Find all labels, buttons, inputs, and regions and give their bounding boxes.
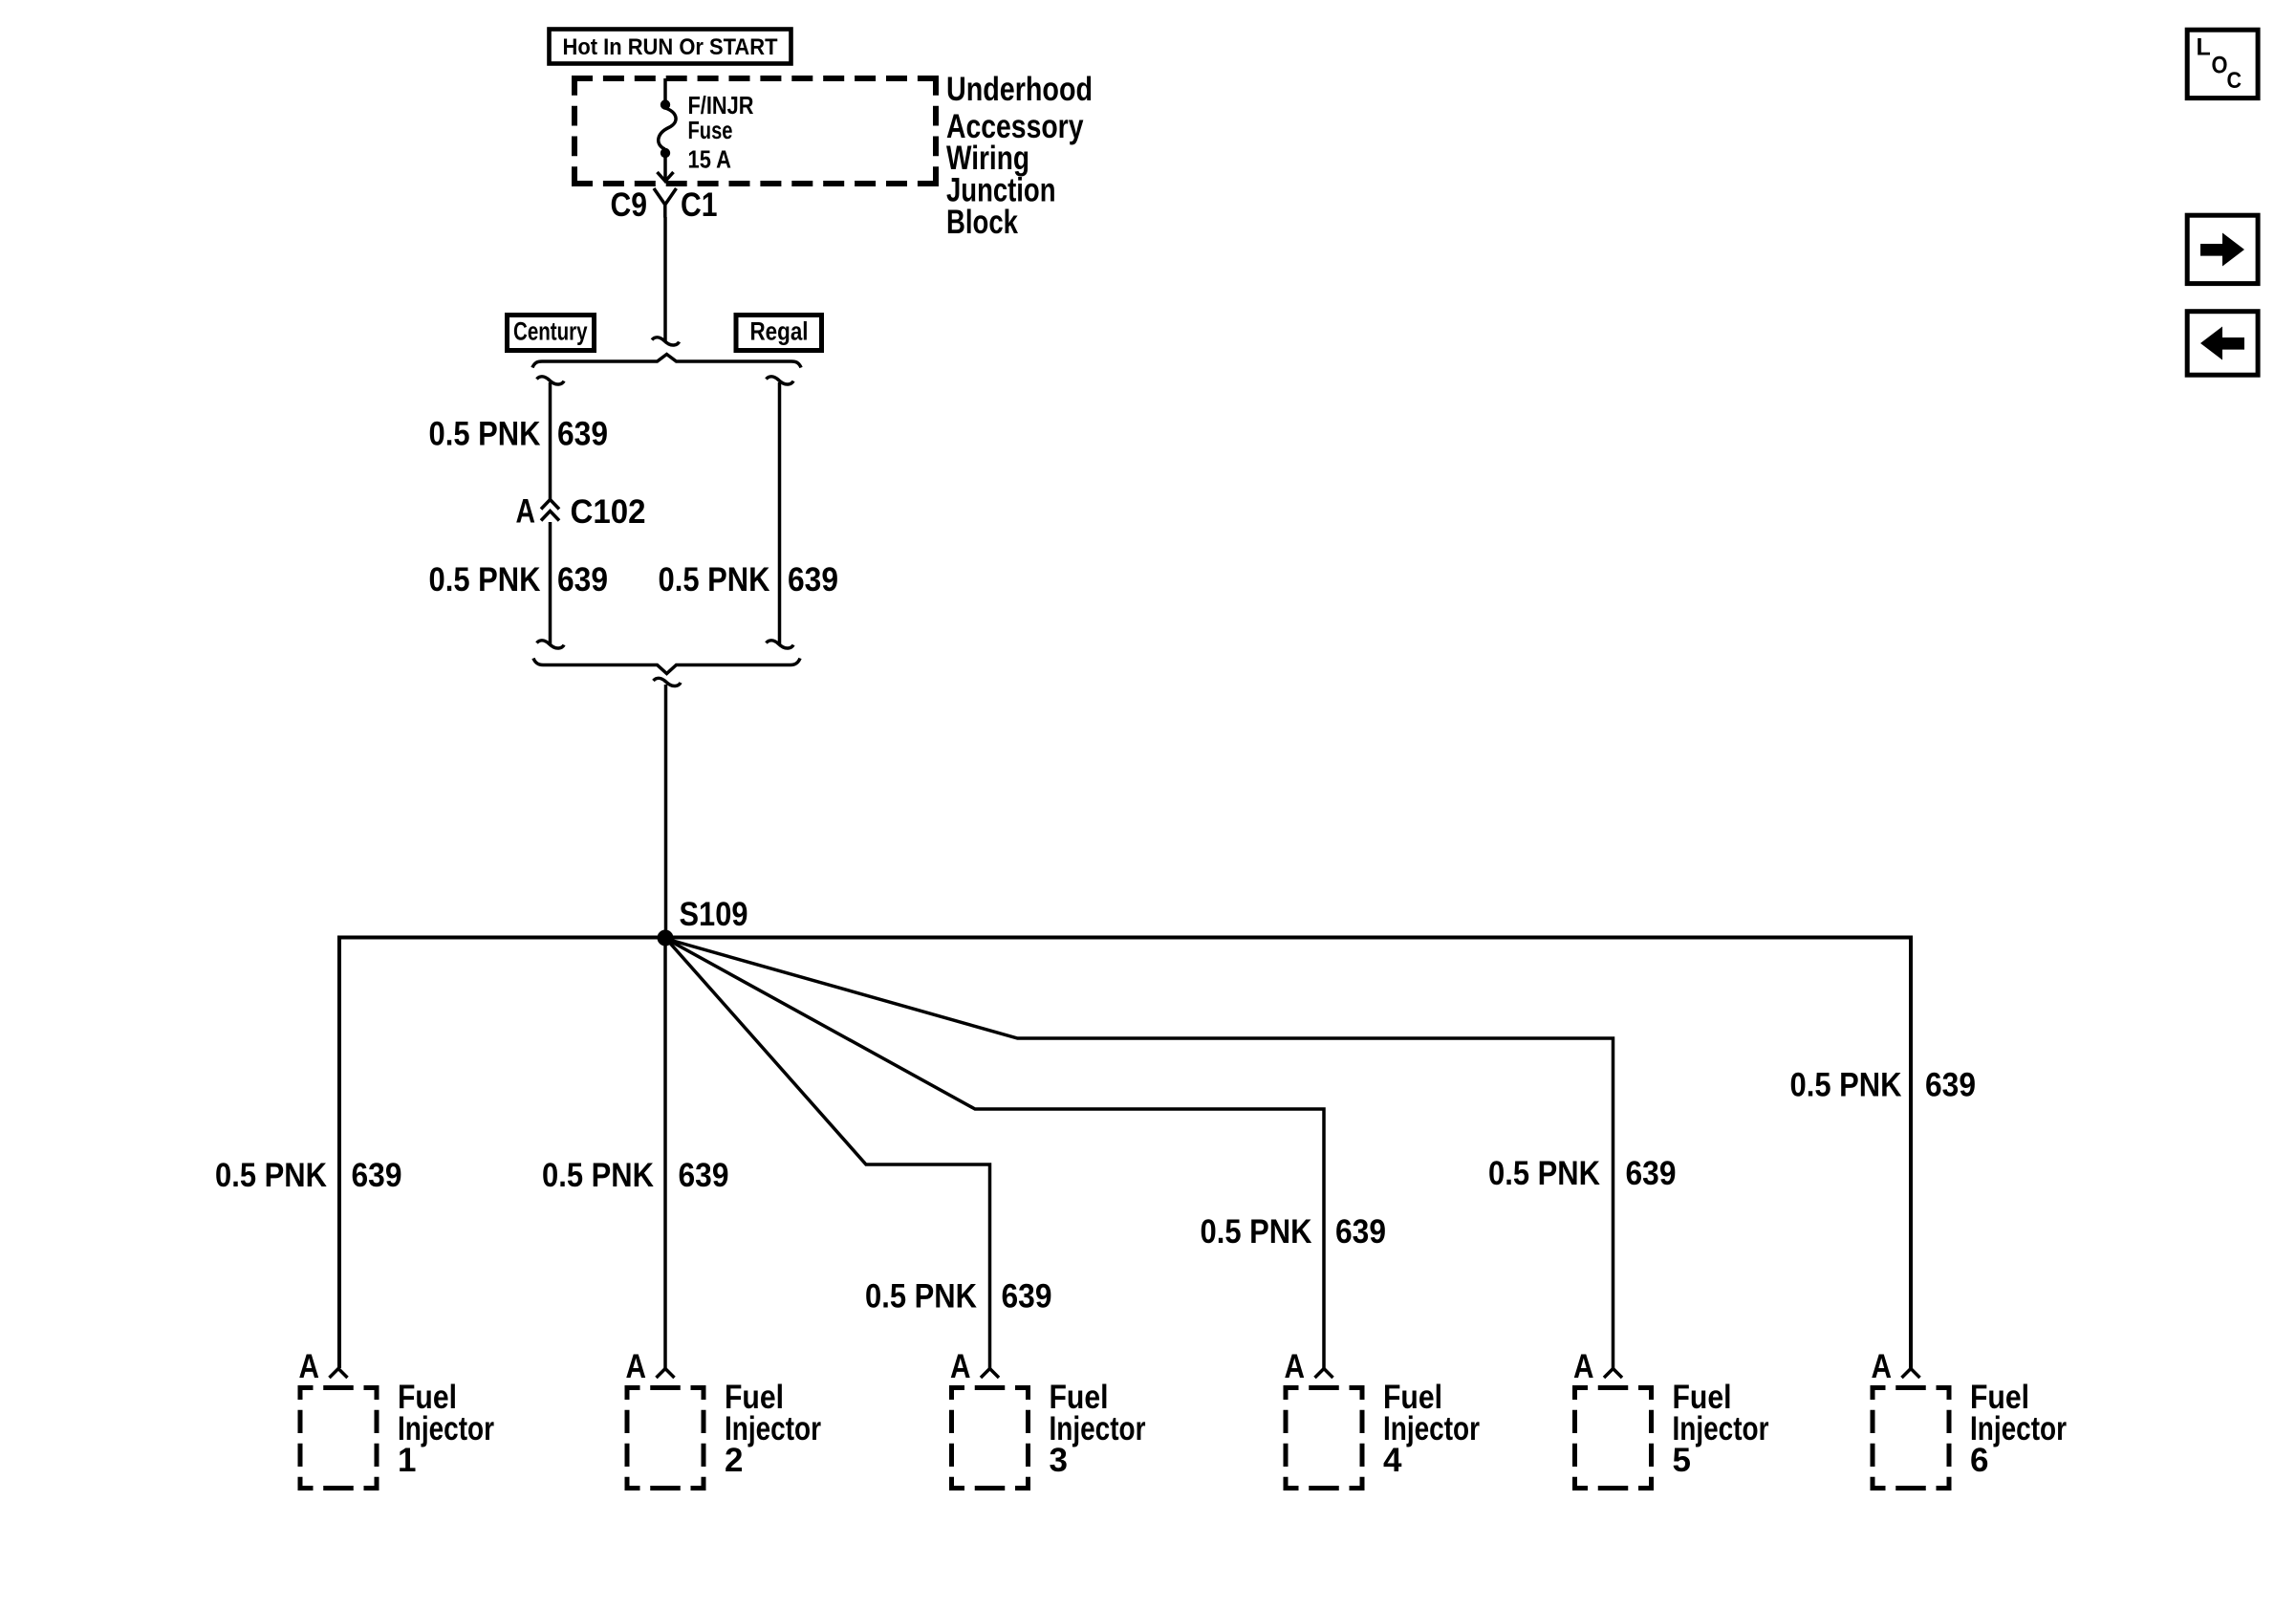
svg-text:0.5 PNK: 0.5 PNK [1790,1067,1902,1104]
svg-text:Regal: Regal [750,317,809,346]
svg-text:0.5 PNK: 0.5 PNK [429,561,541,598]
wire from fuse with arrowhead to block bottom edge [658,153,674,182]
svg-text:0.5 PNK: 0.5 PNK [429,416,541,453]
fuel injector 1 dashed box [298,1385,379,1490]
connector chevron (injector 2) [657,1369,675,1379]
svg-text:0.5 PNK: 0.5 PNK [659,561,770,598]
svg-text:0.5 PNK: 0.5 PNK [865,1278,977,1316]
wire from junction block top edge to fuse [663,78,667,101]
label Underhood Accessory Wiring Junction Block [946,71,1093,241]
label 0.5 PNK 639 (injector 3 wire) [865,1278,1052,1316]
svg-text:0.5 PNK: 0.5 PNK [1488,1155,1600,1192]
svg-text:A: A [626,1348,647,1385]
fuel injector 4 dashed box [1284,1385,1365,1490]
svg-text:Underhood: Underhood [946,71,1093,108]
label 0.5 PNK 639 (injector 4 wire) [1201,1213,1387,1251]
svg-text:Fuse: Fuse [688,116,733,144]
label F/INJR Fuse 15 A [688,91,754,174]
svg-text:4: 4 [1383,1442,1402,1479]
fuel injector 6 [1871,1348,2068,1490]
svg-text:639: 639 [352,1157,402,1194]
fuel injector 2 [625,1348,822,1490]
svg-text:0.5 PNK: 0.5 PNK [542,1157,654,1194]
injector 5 branch wire [666,939,1614,1368]
next page arrow icon [2187,215,2258,283]
wire break squiggle below merge [654,678,682,685]
label 0.5 PNK 639 (injector 6 wire) [1790,1067,1977,1104]
fuel injector 2 dashed box [625,1385,706,1490]
label 0.5 PNK 639 (injector 2 wire) [542,1157,729,1194]
svg-text:6: 6 [1970,1442,1988,1479]
svg-text:C: C [2227,68,2242,94]
fuel injector 3 dashed box [949,1385,1030,1490]
svg-text:A: A [1573,1348,1594,1385]
svg-text:3: 3 [1050,1442,1068,1479]
fuel injector 5 [1572,1348,1769,1490]
connector chevron (injector 6) [1902,1369,1920,1379]
svg-text:C9: C9 [611,186,648,224]
injector 2 wire from splice down [663,938,667,1368]
Century branch wire 0.5 PNK 639 [537,377,565,648]
svg-text:Hot In RUN Or START: Hot In RUN Or START [563,34,778,60]
svg-text:639: 639 [557,416,608,453]
injector 4 branch wire [666,939,1324,1368]
svg-text:639: 639 [1626,1155,1677,1192]
svg-text:S109: S109 [680,896,748,933]
wire from C1 down to model split [663,217,667,341]
fuel injector 3 [949,1348,1146,1490]
svg-text:639: 639 [1002,1278,1052,1316]
connector chevron (injector 4) [1315,1369,1333,1379]
svg-text:A: A [516,493,536,531]
fuel injector 5 dashed box [1572,1385,1654,1490]
svg-text:639: 639 [679,1157,729,1194]
split brace (Century / Regal) [532,355,801,368]
svg-text:639: 639 [788,561,838,598]
svg-text:C1: C1 [681,186,718,224]
svg-text:5: 5 [1673,1442,1691,1479]
svg-text:O: O [2212,53,2228,79]
junction block dashed outline [572,76,939,186]
bus wire from injector 1 corner to injector 6 corner [339,938,1911,1369]
svg-text:A: A [1872,1348,1893,1385]
svg-text:A: A [950,1348,971,1385]
merge brace [533,659,800,674]
power source label box "Hot In RUN Or START" [550,30,791,64]
svg-text:L: L [2197,34,2211,61]
fuel injector 1 [298,1348,495,1490]
connector C9/C1 Y symbol [654,188,677,218]
fuel injector 6 dashed box [1871,1385,1952,1490]
injector 3 branch wire [666,939,990,1368]
wire from merge down to splice S109 [664,685,668,938]
Regal label box [736,315,822,351]
wire break squiggle [652,337,680,345]
label 0.5 PNK 639 (injector 1 wire) [215,1157,402,1194]
fuse F/INJR 15 A [659,99,676,158]
fuel injector 4 [1284,1348,1481,1490]
connector C102 double chevron [541,500,559,521]
svg-text:639: 639 [1335,1213,1386,1251]
svg-text:Century: Century [513,317,588,346]
svg-text:A: A [299,1348,320,1385]
svg-text:1: 1 [398,1442,416,1479]
svg-text:Block: Block [946,204,1018,241]
label 0.5 PNK 639 (injector 5 wire) [1488,1155,1677,1192]
svg-text:639: 639 [557,561,608,598]
svg-text:0.5 PNK: 0.5 PNK [1201,1213,1312,1251]
Regal branch wire 0.5 PNK 639 [767,377,794,648]
previous page arrow icon [2187,312,2258,376]
connector chevron (injector 3) [981,1369,999,1379]
svg-text:2: 2 [725,1442,743,1479]
svg-text:639: 639 [1925,1067,1976,1104]
splice S109 [658,930,674,946]
LOC icon box [2187,30,2258,98]
svg-text:C102: C102 [571,493,646,531]
svg-text:15 A: 15 A [688,145,732,174]
connector chevron (injector 5) [1604,1369,1622,1379]
svg-text:A: A [1285,1348,1306,1385]
Century label box [508,315,595,351]
connector chevron (injector 1) [330,1369,348,1379]
svg-text:0.5 PNK: 0.5 PNK [215,1157,327,1194]
